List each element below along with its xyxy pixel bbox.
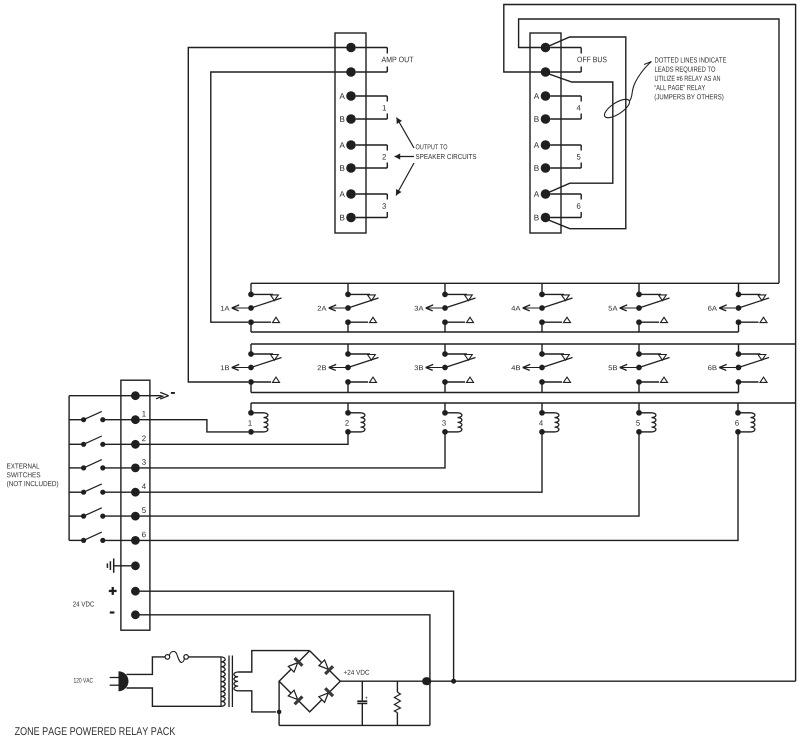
terminal TB3 pin 3 bbox=[131, 440, 140, 449]
label OUTPUT TO SPEAKER CIRCUITS bbox=[416, 144, 447, 149]
terminal strip TB1 (AMP OUT) box bbox=[335, 33, 366, 233]
label 120 VAC bbox=[74, 678, 93, 683]
wire bracket stub bbox=[580, 212, 582, 218]
note: dotted lines annotation text bbox=[655, 57, 726, 62]
coil number 3 bbox=[442, 420, 446, 426]
pin label A bbox=[339, 142, 344, 148]
switch S3 (external) bbox=[69, 467, 84, 469]
wire zone pair 6 bracket bottom bbox=[550, 217, 581, 219]
relay contact 1A bbox=[250, 283, 252, 294]
wire speaker pair 3 bracket bottom bbox=[356, 217, 388, 219]
title ZONE PAGE POWERED RELAY PACK bbox=[15, 727, 175, 735]
wire coil K3 to switch terminal 3 bbox=[135, 432, 445, 468]
relay coil K6 bbox=[737, 403, 739, 413]
wire bracket stub bbox=[580, 96, 582, 102]
lasso loop around jumper wires bbox=[602, 96, 632, 121]
wire A-row top bus bbox=[251, 282, 779, 284]
diode D2 (top-right edge) bbox=[319, 660, 328, 669]
wire A-row bottom bus bbox=[251, 331, 739, 333]
wire zone pair 6 bracket top bbox=[550, 193, 581, 195]
label capacitor polarity bbox=[365, 696, 368, 699]
switch S2 (external) bbox=[69, 443, 84, 445]
circuit number 4 bbox=[577, 105, 581, 110]
wire TB3 pin2 to coil K1 bbox=[135, 420, 248, 432]
terminal TB1 pin 2 bbox=[346, 67, 356, 77]
wire bracket stub bbox=[580, 163, 582, 169]
wire plug neutral lead to primary bbox=[127, 688, 222, 706]
wire bracket stub (dashed) bbox=[386, 67, 388, 73]
pin label B bbox=[534, 116, 538, 122]
circuit number 3 bbox=[382, 203, 386, 209]
resistor R1 (bleeder) bbox=[396, 681, 398, 692]
transformer T1 secondary winding bbox=[234, 672, 238, 691]
fuse F1 bbox=[165, 655, 170, 660]
wire switch common bus bbox=[68, 396, 70, 541]
wire coil K5 to switch terminal 5 bbox=[135, 432, 639, 516]
wire bracket stub bbox=[580, 48, 582, 54]
coil number 2 bbox=[345, 420, 349, 425]
pin number 2 bbox=[142, 436, 146, 442]
leader curve from note to jumper wires bbox=[630, 62, 652, 102]
terminal TB3 pin 6 bbox=[131, 512, 140, 521]
wire coil K2 to switch terminal 2 bbox=[135, 432, 348, 444]
wire bracket stub bbox=[580, 194, 582, 200]
label minus 24VDC bbox=[110, 611, 115, 613]
terminal TB3 pin 1 bbox=[131, 391, 140, 400]
terminal TB2 pin 2 bbox=[541, 67, 551, 77]
wire zone pair 4 bracket bottom bbox=[550, 118, 581, 120]
terminal TB3 pin 5 bbox=[131, 488, 140, 497]
wire speaker pair 3 bracket top bbox=[356, 193, 388, 195]
label minus polarity bbox=[171, 392, 175, 394]
wire bracket stub bbox=[386, 163, 388, 169]
wire zone pair 5 bracket bottom bbox=[550, 167, 581, 169]
transformer T1 core bbox=[228, 656, 230, 708]
wire B-row top bus bbox=[251, 343, 796, 345]
pin label A bbox=[339, 191, 344, 197]
wire coil supply bus bbox=[251, 402, 796, 404]
switch S4 (external) bbox=[69, 491, 84, 493]
wire OFF BUS bracket top bbox=[550, 47, 581, 49]
terminal TB2 pin 4 bbox=[541, 114, 551, 124]
terminal TB1 pin 5 bbox=[346, 140, 356, 150]
wire B-row bottom bus bbox=[251, 392, 739, 394]
pin number 4 bbox=[142, 484, 146, 490]
diode D3 (bottom-left edge) bbox=[288, 690, 297, 699]
ground (chassis) symbol bbox=[114, 565, 131, 567]
wire coil K6 to switch terminal 6 bbox=[135, 432, 738, 541]
terminal TB3 pin 9 bbox=[131, 587, 140, 596]
relay coil K5 bbox=[638, 403, 640, 413]
switch S6 (external) bbox=[69, 539, 84, 541]
relay coil K3 bbox=[444, 403, 446, 413]
terminal TB1 pin 3 bbox=[346, 91, 356, 101]
diode D4 (bottom-right edge) bbox=[319, 693, 328, 702]
wire AMP OUT bracket top bbox=[356, 47, 388, 49]
arrow head toward minus bbox=[156, 392, 169, 399]
label AMP OUT bbox=[382, 57, 414, 63]
terminal TB2 pin 8 bbox=[541, 213, 551, 223]
terminal TB1 pin 1 bbox=[346, 43, 356, 53]
relay contact 5B bbox=[638, 344, 640, 354]
wire +24V rail bbox=[340, 680, 795, 682]
circuit number 2 bbox=[382, 154, 386, 159]
circuit number 6 bbox=[577, 203, 581, 209]
wire speaker pair 1 bracket bottom bbox=[356, 118, 388, 120]
wire AMP OUT bracket bottom bbox=[356, 71, 388, 73]
AC plug P1 bbox=[110, 677, 119, 679]
terminal TB1 pin 7 bbox=[346, 189, 356, 199]
pin number 5 bbox=[142, 507, 146, 513]
label 24 VDC bbox=[73, 601, 94, 606]
relay contact 1B bbox=[250, 344, 252, 354]
pin number 6 bbox=[142, 532, 146, 538]
terminal TB3 pin 8 bbox=[131, 561, 140, 570]
relay contact 2B bbox=[347, 344, 349, 354]
relay contact 3B bbox=[444, 344, 446, 354]
switch S5 (external) bbox=[69, 515, 84, 517]
arrow to speaker pair 2 bbox=[395, 156, 415, 158]
pin label B bbox=[340, 116, 344, 122]
label OFF BUS bbox=[577, 57, 606, 63]
pin label A bbox=[339, 93, 344, 99]
terminal TB2 pin 3 bbox=[541, 91, 551, 101]
wire bracket stub bbox=[580, 67, 582, 73]
circuit number 5 bbox=[577, 154, 581, 159]
junction blob on rail crossing bbox=[422, 677, 431, 685]
wire bracket stub bbox=[580, 145, 582, 151]
pin label B bbox=[340, 215, 344, 221]
terminal TB2 pin 7 bbox=[541, 189, 551, 199]
diode D1 (top-left edge) bbox=[288, 663, 297, 672]
terminal strip TB3 (switch inputs) box bbox=[121, 380, 150, 630]
relay contact 4B bbox=[541, 344, 543, 354]
wire bracket stub bbox=[386, 145, 388, 151]
wire zone pair 4 bracket top bbox=[550, 95, 581, 97]
wire junction to negative bus bbox=[278, 712, 280, 726]
wire OFF BUS pin1 to A-row bus (via top) bbox=[519, 19, 779, 283]
coil number 5 bbox=[636, 420, 640, 425]
relay contact 6A bbox=[738, 283, 740, 294]
wire bracket stub bbox=[386, 96, 388, 102]
wire TB3 plus to +24V rail bbox=[135, 591, 453, 681]
wire AMP OUT pin1 to contact 1B common-bottom bbox=[188, 48, 351, 383]
pin label A bbox=[534, 142, 539, 148]
transformer T1 primary winding bbox=[221, 657, 225, 706]
junction +24V rail bbox=[451, 679, 456, 684]
relay contact 2A bbox=[347, 283, 349, 294]
relay contact 6B bbox=[738, 344, 740, 354]
wire fuse to primary top bbox=[188, 656, 221, 658]
wire OFF BUS bracket bottom bbox=[550, 71, 581, 73]
wire speaker pair 1 bracket top bbox=[356, 95, 388, 97]
wire bracket stub bbox=[580, 114, 582, 120]
wire AMP OUT pin2 to contact 1A common-bottom bbox=[211, 72, 351, 322]
pin label B bbox=[534, 165, 538, 171]
capacitor C1 (filter) bbox=[361, 681, 363, 700]
wire bracket stub bbox=[386, 114, 388, 120]
wire bracket stub (dashed) bbox=[386, 48, 388, 54]
wire speaker pair 2 bracket bottom bbox=[356, 167, 388, 169]
label plus 24VDC bbox=[109, 590, 117, 592]
wire zone pair 5 bracket top bbox=[550, 144, 581, 146]
terminal TB1 pin 4 bbox=[346, 114, 356, 124]
bridge rectifier BR1 diamond bbox=[279, 651, 340, 712]
wire plug hot lead to fuse bbox=[127, 657, 166, 675]
wire OFF BUS pin2 right-edge bus bbox=[504, 5, 796, 682]
relay contact 5A bbox=[638, 283, 640, 294]
relay coil K4 bbox=[541, 403, 543, 413]
wire jumper OFF BUS pin2 to pin 6A bbox=[549, 74, 613, 193]
switch S1 (external) bbox=[69, 419, 84, 421]
relay coil K2 bbox=[347, 403, 349, 413]
coil number 1 bbox=[248, 420, 251, 425]
junction bridge bottom node bbox=[277, 710, 282, 715]
label +24 VDC bbox=[344, 670, 369, 675]
terminal TB1 pin 6 bbox=[346, 163, 356, 173]
arrow to speaker pair 1 bbox=[397, 118, 415, 149]
pin number 3 bbox=[142, 459, 146, 465]
coil number 6 bbox=[735, 420, 739, 426]
pin label A bbox=[534, 93, 539, 99]
wire coil K4 to switch terminal 4 bbox=[135, 432, 542, 492]
wire speaker pair 2 bracket top bbox=[356, 144, 388, 146]
relay coil K1 bbox=[250, 403, 252, 413]
circuit number 1 bbox=[383, 105, 386, 110]
wire jumper OFF BUS pin1 to pin 6B bbox=[549, 37, 626, 229]
terminal TB2 pin 6 bbox=[541, 163, 551, 173]
coil number 4 bbox=[539, 420, 543, 425]
terminal TB3 pin 7 bbox=[131, 536, 140, 545]
arrow to speaker pair 3 bbox=[396, 163, 414, 196]
label EXTERNAL SWITCHES (NOT INCLUDED) bbox=[7, 464, 39, 469]
relay contact 4A bbox=[541, 283, 543, 294]
wire bracket stub bbox=[386, 212, 388, 218]
wire TB3 minus to negative bus bbox=[135, 615, 430, 726]
terminal TB2 pin 5 bbox=[541, 140, 551, 150]
terminal TB3 pin 10 bbox=[131, 610, 140, 619]
wire secondary top to bridge AC1 bbox=[238, 651, 310, 672]
relay contact 3A bbox=[444, 283, 446, 294]
pin number 1 bbox=[142, 411, 145, 417]
wire negative bus bbox=[279, 724, 430, 726]
terminal TB1 pin 8 bbox=[346, 213, 356, 223]
terminal strip TB2 (OFF BUS) box bbox=[530, 33, 561, 233]
wire switch common to pin 1 bbox=[69, 395, 161, 397]
pin label B bbox=[534, 215, 538, 221]
terminal TB2 pin 1 bbox=[541, 43, 551, 53]
terminal TB3 pin 4 bbox=[131, 464, 140, 473]
wire bracket stub bbox=[386, 194, 388, 200]
wire secondary bottom to bridge junction bbox=[238, 691, 276, 712]
terminal TB3 pin 2 bbox=[131, 415, 140, 424]
pin label B bbox=[340, 165, 344, 171]
pin label A bbox=[534, 191, 539, 197]
wire bridge AC2 corner drop bbox=[278, 681, 280, 712]
